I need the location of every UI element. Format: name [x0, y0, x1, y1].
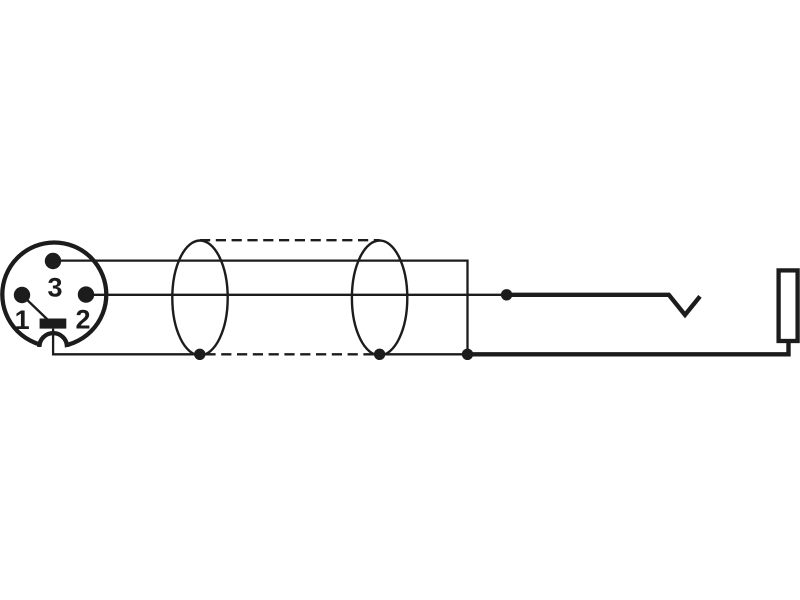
wire: pin1 to latch (diagonal) — [22, 295, 48, 320]
junction dot at ellipse 1 bottom — [194, 349, 205, 360]
svg-text:2: 2 — [75, 305, 90, 335]
notch cutout (white) — [42, 335, 65, 358]
pin 3 — [45, 253, 61, 269]
wire: latch down and shield wire to ellipse 1 — [53, 329, 200, 355]
jack tip lead with hook (V symbol) — [507, 295, 700, 315]
shield top dashed line — [200, 239, 380, 241]
wire: pin3 top wire and vertical drop — [53, 261, 468, 355]
jack sleeve contact (rectangle) — [779, 270, 798, 341]
wire: pin2 middle wire — [86, 294, 507, 296]
svg-text:3: 3 — [47, 273, 62, 303]
junction dot at tip node — [501, 289, 512, 300]
notch arch — [39, 333, 67, 347]
wire: shield dashed segment between ellipses — [200, 353, 380, 355]
cable shield ellipse 1 — [172, 241, 227, 356]
pin 2 — [78, 286, 94, 302]
wire: shield solid segment ellipse2 to junction — [380, 353, 468, 355]
latch plate (cable clamp rectangle) — [40, 319, 67, 329]
cable shield ellipse 2 — [352, 241, 407, 356]
junction dot at ellipse 2 bottom — [374, 349, 385, 360]
pin 1 — [14, 287, 30, 303]
junction dot at sleeve node — [462, 349, 473, 360]
wire: thick sleeve lead to jack sleeve — [468, 341, 789, 355]
svg-text:1: 1 — [15, 305, 30, 335]
XLR connector body (circle outline) — [2, 243, 106, 347]
